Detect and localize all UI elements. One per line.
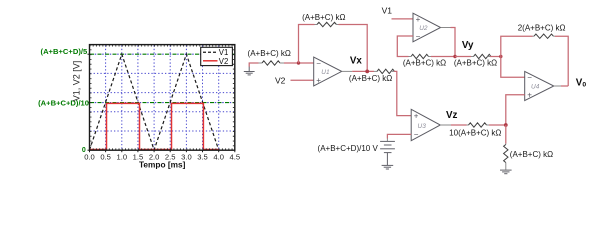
resistor R8 (A+B+C) kOhm to ground bbox=[504, 144, 508, 170]
legend V1 dashed sample bbox=[203, 51, 218, 53]
resistor R3 (A+B+C) kOhm Vx to U3 bbox=[374, 69, 395, 73]
wire Vy to R5 bbox=[455, 56, 471, 58]
wire U4 non-inverting input from Vz node bbox=[506, 95, 525, 125]
svg-text:V0: V0 bbox=[576, 77, 587, 88]
svg-text:V1: V1 bbox=[219, 48, 229, 57]
resistor R4 (A+B+C) kOhm feedback of U2 bbox=[409, 54, 432, 58]
battery V5 (A+B+C+D)/10 V bbox=[380, 139, 395, 166]
axes frame bbox=[90, 45, 235, 151]
svg-text:Vz: Vz bbox=[446, 110, 458, 121]
op-amp U4 bbox=[525, 71, 554, 100]
svg-text:4.0: 4.0 bbox=[213, 153, 224, 162]
svg-text:10(A+B+C) kΩ: 10(A+B+C) kΩ bbox=[449, 129, 501, 138]
wire J4 down to U4 inverting input bbox=[501, 57, 525, 78]
svg-text:+: + bbox=[414, 111, 419, 120]
axis minor ticks bottom edge bbox=[90, 148, 235, 150]
svg-text:U2: U2 bbox=[419, 25, 428, 32]
svg-text:U1: U1 bbox=[321, 69, 330, 76]
wire U2 output stub bbox=[441, 27, 451, 29]
svg-text:1.0: 1.0 bbox=[117, 153, 128, 162]
op-amp U3 bbox=[411, 109, 440, 140]
resistor R6 2(A+B+C) kOhm feedback of U4 bbox=[533, 34, 556, 38]
svg-text:+: + bbox=[527, 91, 532, 100]
chart grid horizontal blue dotted lines bbox=[90, 73, 234, 131]
green dash-dot threshold line (A+B+C+D)/10 level bbox=[90, 102, 234, 104]
resistor R1 (A+B+C) kOhm input of U1 bbox=[259, 61, 285, 65]
wire R4 up to U2 inverting input bbox=[397, 36, 413, 57]
svg-text:(A+B+C) kΩ: (A+B+C) kΩ bbox=[302, 13, 345, 22]
node Vx junction J2 bbox=[365, 70, 369, 74]
svg-text:0.5: 0.5 bbox=[100, 153, 111, 162]
svg-text:(A+B+C) kΩ: (A+B+C) kΩ bbox=[510, 150, 553, 159]
ground G1 (left of R1) bbox=[244, 67, 255, 75]
wire Vy node to R4 feedback bbox=[431, 56, 455, 58]
svg-text:+: + bbox=[416, 15, 421, 24]
wire U3 output stub bbox=[440, 124, 451, 126]
wire V2 to U1 non-inverting input bbox=[291, 79, 314, 81]
chart grid vertical blue dotted lines bbox=[106, 45, 219, 149]
svg-text:Vx: Vx bbox=[350, 56, 363, 67]
svg-text:−: − bbox=[416, 32, 421, 41]
axis minor ticks right edge bbox=[233, 45, 235, 151]
x tick labels bbox=[84, 153, 240, 162]
green dash-dot threshold line (A+B+C+D)/5 level bbox=[90, 53, 234, 55]
svg-text:(A+B+C) kΩ: (A+B+C) kΩ bbox=[454, 58, 497, 67]
legend box bbox=[201, 47, 233, 65]
wire U1 output to J2 bbox=[352, 70, 374, 72]
op-amp U1 bbox=[314, 57, 342, 86]
svg-text:U4: U4 bbox=[531, 84, 540, 91]
op-amp U2 bbox=[413, 13, 441, 42]
node Vz junction J5 bbox=[504, 123, 508, 127]
wire J5 down to R8 bbox=[505, 125, 507, 144]
svg-text:Tempo [ms]: Tempo [ms] bbox=[139, 159, 186, 169]
legend V2 red sample bbox=[203, 60, 218, 62]
svg-text:2(A+B+C) kΩ: 2(A+B+C) kΩ bbox=[518, 24, 566, 33]
svg-text:U3: U3 bbox=[418, 123, 427, 130]
axis minor ticks top edge bbox=[90, 45, 235, 47]
resistor R2 (A+B+C) kOhm feedback of U1 bbox=[315, 22, 339, 26]
svg-text:V2: V2 bbox=[219, 57, 229, 66]
node Vy junction J3 bbox=[453, 55, 456, 58]
waveform V1 triangle dashed black bbox=[90, 54, 219, 150]
svg-text:V2: V2 bbox=[275, 75, 286, 85]
resistor R7 10(A+B+C) kOhm bbox=[467, 123, 490, 127]
wire V1 to U2 non-inverting input bbox=[392, 18, 414, 20]
svg-text:4.5: 4.5 bbox=[230, 153, 241, 162]
wire R3 down to U3 non-inverting input bbox=[394, 71, 411, 115]
wire R2 to output node bbox=[339, 25, 368, 72]
wire U4 output stub bbox=[554, 85, 561, 87]
wire R7 to junction J5 bbox=[489, 124, 506, 126]
svg-text:V1, V2 [V]: V1, V2 [V] bbox=[72, 61, 82, 102]
svg-text:(A+B+C) kΩ: (A+B+C) kΩ bbox=[403, 59, 446, 68]
svg-text:(A+B+C) kΩ: (A+B+C) kΩ bbox=[248, 49, 291, 58]
svg-text:0.0: 0.0 bbox=[84, 153, 95, 162]
svg-text:(A+B+C+D)/5: (A+B+C+D)/5 bbox=[41, 47, 88, 56]
wire R5 to junction J4 bbox=[490, 56, 501, 58]
svg-text:(A+B+C) kΩ: (A+B+C) kΩ bbox=[349, 74, 392, 83]
axis minor ticks left edge bbox=[90, 45, 92, 151]
node junction J4 bbox=[499, 55, 502, 58]
ground G3 under R8 bbox=[500, 170, 512, 174]
wire J4 up to R6 feedback of U4 bbox=[501, 36, 533, 56]
wire U4 output to feedback corner bbox=[561, 85, 568, 87]
wire U2 output down to Vy node bbox=[451, 28, 456, 57]
svg-text:Vy: Vy bbox=[462, 40, 474, 51]
svg-text:V1: V1 bbox=[382, 6, 393, 16]
svg-text:−: − bbox=[414, 130, 419, 139]
svg-text:+: + bbox=[316, 76, 321, 85]
wire battery to U3 inverting input bbox=[387, 134, 411, 138]
wire U1 output stub bbox=[342, 70, 353, 72]
waveform V2 red square wave bbox=[90, 103, 219, 149]
wire R6 down to U4 output bbox=[555, 36, 568, 86]
wire R1 to U1 inverting input bbox=[284, 62, 314, 64]
svg-text:−: − bbox=[527, 73, 532, 82]
wire U1 feedback loop bbox=[299, 25, 315, 64]
svg-text:−: − bbox=[316, 59, 321, 68]
x axis ticks bbox=[90, 150, 235, 152]
svg-text:(A+B+C+D)/10 V: (A+B+C+D)/10 V bbox=[318, 144, 379, 153]
resistor R5 (A+B+C) kOhm Vy to U4 bbox=[471, 54, 491, 58]
wire ground G1 to R1 bbox=[249, 63, 258, 67]
node junction J1 bbox=[297, 61, 300, 64]
wire U3 output to R7 bbox=[451, 124, 467, 126]
y axis ticks bbox=[88, 54, 90, 150]
svg-text:3.5: 3.5 bbox=[197, 153, 208, 162]
ground G2 under battery bbox=[382, 165, 394, 169]
